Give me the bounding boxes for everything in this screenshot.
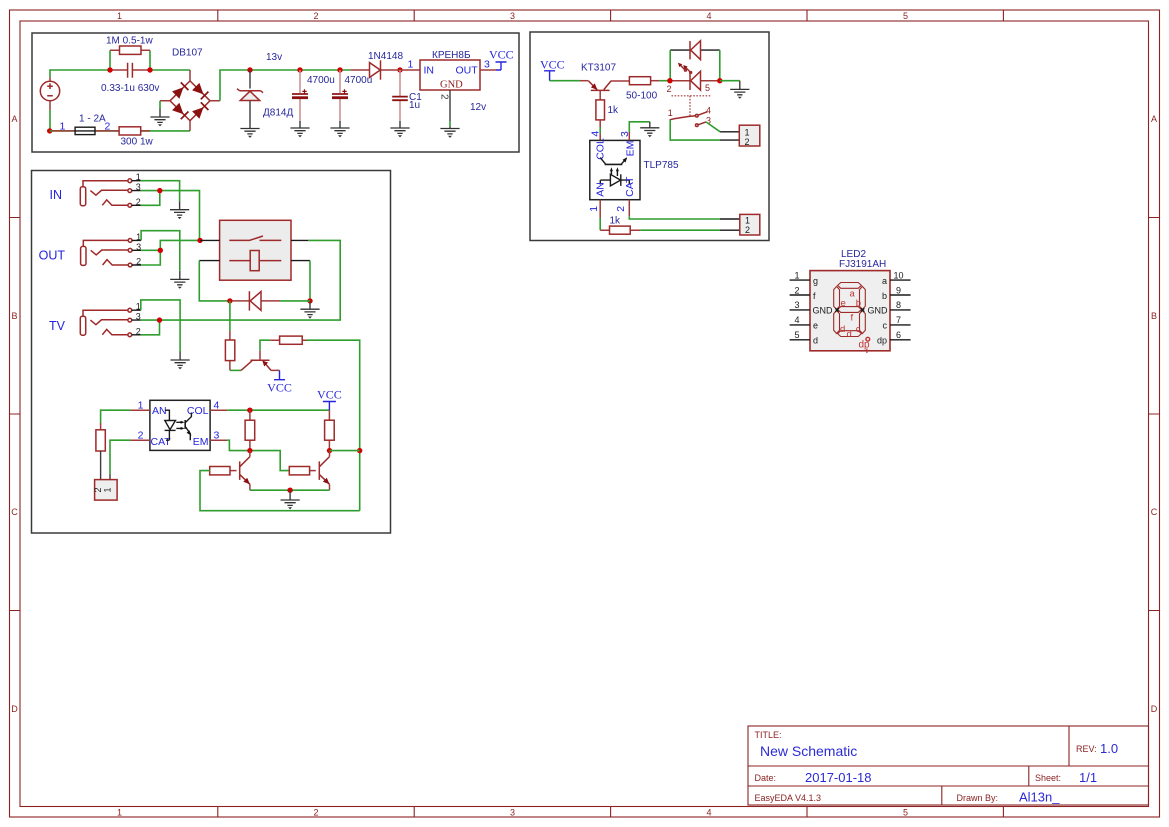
wire IN pin3 — [141, 191, 200, 241]
junction SSR left — [667, 78, 672, 83]
wire TV pin1 to ground — [141, 300, 180, 352]
svg-text:3: 3 — [794, 300, 799, 310]
svg-text:GND: GND — [440, 80, 463, 91]
svg-text:EM: EM — [193, 436, 209, 448]
wire VCC to Q1 — [550, 80, 580, 82]
ground SSR — [730, 89, 749, 98]
resistor R1k-bottom — [600, 226, 640, 234]
U2 pin EM lead — [210, 439, 227, 441]
resistor R-q4-base — [289, 467, 316, 475]
svg-text:4: 4 — [706, 11, 711, 21]
svg-text:Al13n_: Al13n_ — [1019, 790, 1060, 805]
relay coil — [229, 251, 281, 271]
svg-text:B: B — [1151, 311, 1157, 321]
block3 border — [530, 32, 769, 241]
capacitor CP1 4700u — [292, 70, 308, 121]
bottom ruler ticks — [218, 807, 1004, 818]
bridge diode left-top — [172, 87, 183, 99]
LED2 left pins — [790, 280, 810, 340]
VCC symbol npn collectors — [317, 388, 342, 411]
svg-text:2: 2 — [745, 137, 750, 147]
svg-text:1: 1 — [794, 270, 799, 280]
ground cap2 — [330, 128, 349, 137]
ground OUT stem — [179, 271, 181, 280]
LED2 right pins — [890, 280, 911, 340]
svg-text:A: A — [11, 114, 17, 124]
junction emitter ground — [287, 488, 292, 493]
left ruler ticks — [10, 218, 21, 611]
junction R1M-left — [107, 67, 112, 72]
svg-text:GND: GND — [813, 306, 834, 316]
svg-text:5: 5 — [794, 330, 799, 340]
TITLEBLOCK — [748, 726, 1149, 805]
svg-text:1: 1 — [138, 400, 144, 412]
U2 internal LED — [165, 410, 176, 440]
junction cap2 — [337, 67, 342, 72]
svg-text:3: 3 — [510, 808, 515, 818]
svg-text:a: a — [850, 289, 856, 300]
SSR light arrows — [678, 63, 692, 74]
resistor R300 300 1w — [110, 127, 150, 135]
wire bridge-left to ground — [159, 101, 161, 109]
connector P2 — [93, 474, 117, 500]
svg-text:4: 4 — [706, 808, 711, 818]
wire OUT pin1 to ground — [141, 231, 180, 271]
LED2 right pin names — [868, 276, 889, 346]
jack J3 TV — [80, 302, 141, 337]
wire R1k-bottom to connector — [640, 229, 720, 231]
ground bridge-left — [150, 117, 169, 126]
wire relay rightbottom to diode — [309, 261, 311, 301]
relay switch contact — [229, 236, 281, 240]
jack J2 OUT — [81, 232, 142, 267]
svg-text:AN: AN — [594, 182, 606, 197]
regulator pin 3 — [480, 69, 496, 71]
svg-text:dp: dp — [859, 340, 871, 351]
svg-text:Drawn By:: Drawn By: — [957, 793, 999, 803]
ground regulator — [440, 129, 459, 138]
wire common to connector pin2 — [670, 120, 720, 140]
svg-text:300 1w: 300 1w — [121, 137, 154, 148]
svg-text:2: 2 — [138, 430, 144, 442]
svg-text:VCC: VCC — [489, 48, 514, 62]
transistor Q4 NPN — [319, 451, 329, 491]
regulator GND pin stem — [449, 90, 451, 121]
wire CAT to connector — [110, 440, 130, 474]
resistor R-q3-base — [210, 467, 237, 475]
bridge diode left-bottom — [172, 103, 183, 115]
svg-text:1u: 1u — [409, 100, 420, 111]
svg-text:2: 2 — [745, 225, 750, 235]
zener diode D814D — [237, 70, 263, 121]
svg-text:REV:: REV: — [1076, 744, 1097, 754]
svg-text:2: 2 — [93, 487, 103, 492]
optocoupler U2 body — [150, 400, 210, 450]
dp red stem — [866, 349, 868, 354]
ground bridge-left stem — [159, 109, 161, 118]
svg-text:EM: EM — [625, 141, 637, 157]
svg-text:1: 1 — [745, 216, 750, 226]
svg-text:2: 2 — [794, 285, 799, 295]
wire bottom run — [50, 130, 119, 132]
svg-text:g: g — [813, 276, 818, 286]
ground SSR stem — [739, 81, 741, 90]
resistor R1k base — [596, 100, 605, 140]
wire SSR to ground — [720, 80, 740, 82]
svg-text:6: 6 — [896, 330, 901, 340]
ground cap2 stem — [339, 121, 341, 128]
wire OUT pin3 to relay — [141, 240, 200, 250]
junction diode left — [227, 298, 232, 303]
svg-text:TITLE:: TITLE: — [755, 730, 782, 740]
svg-text:TLP785: TLP785 — [644, 160, 679, 171]
svg-text:c: c — [883, 321, 888, 331]
svg-text:CAT: CAT — [624, 176, 636, 197]
svg-text:1: 1 — [117, 11, 122, 21]
svg-text:IN: IN — [424, 65, 435, 77]
wire collector to pnp — [230, 369, 241, 371]
svg-text:1N4148: 1N4148 — [368, 51, 403, 62]
svg-text:13v: 13v — [266, 52, 282, 63]
svg-text:3: 3 — [136, 312, 141, 322]
svg-text:COL: COL — [187, 405, 209, 417]
wire TV pin2 — [141, 320, 160, 335]
resistor R-q3-collector — [245, 410, 255, 450]
svg-text:4: 4 — [706, 106, 711, 116]
svg-text:50-100: 50-100 — [626, 91, 658, 102]
gnd cross marks — [835, 308, 864, 311]
SSR switch contact 3 — [696, 124, 699, 127]
svg-text:d: d — [847, 329, 852, 340]
svg-text:Sheet:: Sheet: — [1035, 773, 1061, 783]
ground TV stem — [179, 352, 181, 361]
svg-text:0.33-1u 630v: 0.33-1u 630v — [101, 83, 159, 94]
svg-text:Date:: Date: — [755, 773, 777, 783]
svg-text:OUT: OUT — [456, 65, 479, 77]
VCC symbol block3 — [540, 58, 565, 81]
resistor R50-100 — [629, 77, 659, 85]
VCC symbol pnp emitter — [267, 370, 292, 394]
connector P1 — [739, 125, 760, 147]
svg-text:2: 2 — [615, 206, 627, 212]
svg-text:1k: 1k — [608, 105, 620, 116]
VCC symbol block1 — [489, 48, 514, 71]
wire AC bottom — [50, 110, 190, 131]
svg-text:5: 5 — [903, 808, 908, 818]
junction relay pin left-top — [197, 238, 202, 243]
jack J1 IN — [80, 172, 141, 207]
svg-text:C: C — [1151, 507, 1158, 517]
svg-text:1: 1 — [117, 808, 122, 818]
wire AN to resistor — [101, 410, 131, 423]
svg-text:OUT: OUT — [39, 249, 66, 263]
svg-text:AN: AN — [152, 405, 167, 417]
U1 internal light arrows — [610, 167, 619, 176]
svg-text:B: B — [11, 311, 17, 321]
svg-text:dp: dp — [877, 336, 887, 346]
wire AC top — [50, 70, 190, 77]
U1 CAT lead to connector — [628, 200, 630, 217]
svg-text:2: 2 — [136, 257, 141, 267]
ground relay stem — [309, 301, 311, 309]
svg-text:CAT: CAT — [151, 436, 172, 448]
junction cap1 — [297, 67, 302, 72]
svg-text:VCC: VCC — [317, 388, 342, 402]
ground IN stem — [179, 202, 181, 210]
wire relay leftbottom to diode — [199, 261, 230, 301]
SSR actuator dashed — [672, 96, 711, 117]
ground OUT — [170, 279, 189, 288]
block2 border — [32, 171, 391, 534]
svg-text:1: 1 — [588, 206, 600, 212]
fuse F1 1-2A — [52, 127, 110, 134]
junction C1 — [397, 67, 402, 72]
svg-text:4: 4 — [794, 315, 799, 325]
junction OUT pin3 — [158, 248, 163, 253]
svg-text:COL: COL — [594, 138, 606, 160]
svg-text:4700u: 4700u — [345, 75, 373, 86]
LED2 body — [810, 271, 890, 351]
optocoupler U1 TLP785 body — [590, 140, 640, 199]
svg-text:f: f — [851, 313, 854, 324]
BLOCK4 seven segment display — [790, 249, 911, 353]
wire q3 base resistor to bottom rail — [200, 471, 360, 511]
svg-text:e: e — [813, 321, 818, 331]
SSR switch contact 4 — [696, 114, 699, 117]
diode 1N4148 — [351, 60, 400, 79]
resistor R-pnp-base — [270, 336, 306, 344]
svg-text:VCC: VCC — [540, 58, 565, 72]
wire q4 collector to rail — [330, 450, 360, 452]
svg-text:IN: IN — [50, 188, 63, 202]
svg-text:D: D — [11, 704, 18, 714]
resistor R1M 1M 0.5-1w — [110, 46, 150, 70]
svg-text:2: 2 — [439, 94, 450, 100]
wire contact3 to connector — [706, 122, 720, 132]
svg-text:1M 0.5-1w: 1M 0.5-1w — [106, 36, 153, 47]
junction zener — [247, 67, 252, 72]
transistor Q2 PNP — [241, 340, 280, 370]
U1 internal phototransistor — [600, 157, 627, 164]
svg-text:b: b — [856, 298, 861, 309]
svg-text:4: 4 — [214, 400, 220, 412]
ground C1 — [390, 128, 409, 137]
svg-text:New Schematic: New Schematic — [760, 743, 857, 759]
ground emitters — [281, 500, 300, 509]
svg-text:EasyEDA V4.1.3: EasyEDA V4.1.3 — [755, 793, 822, 803]
svg-text:12v: 12v — [470, 102, 486, 113]
top ruler ticks — [218, 10, 1004, 21]
ground relay — [300, 309, 319, 318]
svg-text:a: a — [882, 276, 887, 286]
capacitor C033 0.33-1u 630v — [110, 63, 150, 78]
BLOCK2 jacks and relay — [32, 171, 391, 534]
svg-text:3: 3 — [214, 430, 220, 442]
capacitor C1 1u — [392, 70, 408, 121]
dp circle — [866, 337, 870, 341]
SSR switch common — [670, 116, 696, 120]
svg-text:b: b — [882, 291, 887, 301]
svg-text:5: 5 — [705, 83, 710, 93]
svg-text:VCC: VCC — [267, 381, 292, 395]
svg-text:2: 2 — [313, 808, 318, 818]
wire IN pin1 to ground — [141, 181, 180, 202]
junction IN pin3 — [157, 188, 162, 193]
svg-text:c: c — [856, 324, 861, 335]
wire diode to regulator — [400, 69, 420, 71]
svg-text:DB107: DB107 — [172, 48, 203, 59]
capacitor CP2 4700u — [332, 70, 348, 121]
BLOCK3 optocoupler switch — [530, 32, 769, 241]
svg-text:1: 1 — [103, 487, 113, 492]
transistor Q1 KT3107 PNP — [580, 81, 629, 100]
U2 internal light arrows — [176, 421, 184, 430]
junction right rail — [357, 448, 362, 453]
wire IN pin2 — [141, 191, 160, 206]
ground zener — [240, 129, 259, 138]
svg-text:КРЕН8Б: КРЕН8Б — [432, 50, 471, 61]
LED2 left pin numbers — [794, 270, 799, 340]
svg-text:A: A — [1151, 114, 1157, 124]
junction R1M-right — [147, 67, 152, 72]
ground emitters stem — [289, 490, 291, 500]
junction TV pin3 — [157, 317, 162, 322]
ground U1 EM — [640, 128, 659, 137]
U1 EM lead to ground — [628, 132, 630, 140]
svg-text:KT3107: KT3107 — [581, 63, 616, 74]
flyback diode D2 — [232, 291, 310, 310]
junction COL-R1 — [247, 408, 252, 413]
svg-text:Д814Д: Д814Д — [263, 108, 293, 119]
ground cap1 — [290, 128, 309, 137]
svg-text:GND: GND — [868, 306, 889, 316]
svg-text:FJ3191AH: FJ3191AH — [839, 259, 886, 270]
svg-text:1.0: 1.0 — [1100, 741, 1118, 756]
junction source-bottom — [47, 128, 52, 133]
ground IN — [170, 210, 189, 219]
wire COL to VCC — [227, 409, 329, 411]
bridge rectifier DB107 body — [170, 81, 210, 121]
column numbers top — [117, 11, 908, 21]
resistor R-an (left vertical) — [96, 423, 105, 480]
regulator KREN8B box — [420, 60, 480, 90]
wire pnp base resistor to right rail — [307, 340, 360, 511]
seven segment digit outline — [834, 283, 866, 337]
svg-text:TV: TV — [49, 319, 66, 333]
ground cap1 stem — [299, 121, 301, 128]
svg-text:C: C — [11, 507, 18, 517]
svg-text:1: 1 — [408, 59, 414, 71]
right ruler ticks — [1149, 218, 1160, 611]
junction q3 collector — [247, 448, 252, 453]
svg-text:2017-01-18: 2017-01-18 — [805, 770, 872, 785]
wire EM to npn base — [227, 440, 289, 470]
svg-text:1: 1 — [668, 108, 673, 118]
svg-text:2: 2 — [136, 197, 141, 207]
BLOCK1 power supply — [32, 33, 519, 152]
wire TV pin3 to relay right — [141, 240, 340, 320]
wire R to relay — [660, 80, 670, 82]
row letters right — [1151, 114, 1158, 714]
relay pins — [199, 240, 310, 260]
svg-text:8: 8 — [896, 300, 901, 310]
SSR main diode — [670, 71, 720, 90]
transistor Q3 NPN — [240, 451, 250, 491]
svg-text:1/1: 1/1 — [1079, 770, 1097, 785]
SSR side wires — [670, 50, 720, 81]
svg-text:1: 1 — [745, 128, 750, 138]
wire diode-left down to resistor — [229, 301, 231, 331]
bridge pins — [160, 70, 220, 131]
svg-text:3: 3 — [510, 11, 515, 21]
svg-text:d: d — [813, 336, 818, 346]
ground TV — [171, 360, 190, 369]
U2 internal phototransistor — [185, 413, 191, 441]
svg-text:2: 2 — [667, 84, 672, 94]
svg-text:3: 3 — [136, 242, 141, 252]
wire DC rail — [220, 70, 351, 101]
svg-text:1 - 2A: 1 - 2A — [79, 114, 106, 125]
bridge diode bottom-right — [192, 107, 203, 119]
svg-text:D: D — [1151, 704, 1158, 714]
title block cell dividers — [942, 726, 1069, 805]
svg-text:7: 7 — [896, 315, 901, 325]
wire OUT pin2 — [141, 250, 160, 265]
svg-text:4: 4 — [589, 131, 601, 137]
resistor R-pnp-collector — [225, 331, 234, 370]
block1 border — [32, 33, 519, 152]
wire emitter rail — [250, 489, 330, 491]
ground zener stem — [249, 121, 251, 129]
junction q4 collector — [327, 448, 332, 453]
relay K1 body — [220, 220, 291, 280]
svg-text:e: e — [841, 298, 846, 309]
svg-text:5: 5 — [903, 11, 908, 21]
U2 pin COL lead — [210, 409, 227, 411]
svg-text:3: 3 — [136, 182, 141, 192]
bridge diode top-right — [192, 83, 203, 95]
svg-text:4700u: 4700u — [307, 75, 335, 86]
junction diode right — [307, 298, 312, 303]
U1 internal LED — [600, 174, 629, 186]
svg-text:d: d — [840, 324, 845, 335]
U2 pin AN lead — [130, 409, 150, 411]
column numbers bottom — [117, 808, 908, 818]
svg-text:9: 9 — [896, 285, 901, 295]
connector P3 — [740, 214, 760, 235]
SSR K2 top diode — [670, 41, 720, 60]
junction SSR right — [717, 78, 722, 83]
LED2 right pin numbers — [893, 270, 903, 340]
LED2 left pin names — [813, 276, 834, 346]
title block outline — [748, 726, 1149, 805]
svg-text:2: 2 — [313, 11, 318, 21]
resistor R-q4-collector — [325, 410, 335, 450]
svg-text:10: 10 — [893, 270, 903, 280]
svg-text:1k: 1k — [610, 216, 622, 227]
title block row dividers — [748, 766, 1149, 786]
U2 pin CAT lead — [130, 439, 150, 441]
svg-text:2: 2 — [136, 326, 141, 336]
row letters left — [11, 114, 18, 714]
AC source G1 — [40, 77, 59, 110]
svg-text:1: 1 — [136, 172, 141, 182]
U1 AN lead down — [599, 200, 601, 218]
ground C1 stem — [399, 121, 401, 128]
